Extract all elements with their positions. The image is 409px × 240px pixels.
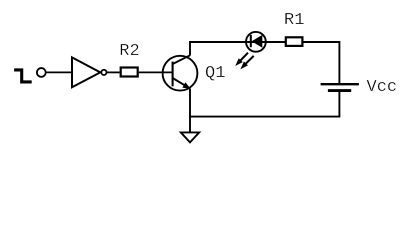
LED D1 — [246, 32, 266, 52]
svg-text:Q1: Q1 — [205, 64, 225, 83]
inverter U1 — [72, 57, 107, 87]
label Vcc — [367, 78, 398, 97]
resistor R1 — [286, 37, 303, 46]
wire emitter vertical to ground — [189, 89, 191, 133]
input terminal node — [37, 68, 46, 77]
battery Vcc plate short — [328, 89, 351, 92]
pulse source input waveform symbol — [14, 70, 32, 82]
resistor R2 — [121, 68, 138, 77]
svg-text:Vcc: Vcc — [367, 78, 398, 97]
svg-text:R1: R1 — [284, 11, 304, 30]
svg-text:R2: R2 — [119, 42, 139, 61]
label Q1 — [205, 64, 225, 83]
wire bottom rail — [189, 116, 340, 118]
wire terminal to inverter input — [46, 71, 71, 73]
battery Vcc plate long — [321, 83, 359, 85]
wire R2 to transistor base — [139, 71, 172, 73]
LED emission arrow 2 — [240, 56, 253, 69]
wire inverter output to R2 — [107, 71, 120, 73]
label R1 — [284, 11, 304, 30]
wire R1 to top right corner and down to battery — [303, 42, 339, 84]
wire LED to R1 — [262, 41, 285, 43]
ground — [181, 132, 199, 142]
wire battery to bottom rail — [338, 91, 340, 117]
label R2 — [119, 42, 139, 61]
LED emission arrow 1 — [235, 53, 248, 66]
transistor Q1 — [163, 55, 198, 90]
wire collector vertical — [189, 41, 191, 56]
wire top rail left (collector to LED) — [189, 41, 250, 43]
